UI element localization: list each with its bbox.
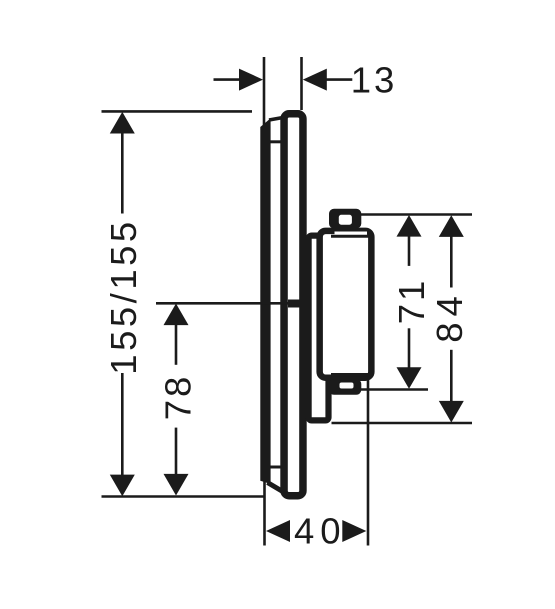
svg-text:155/155: 155/155 bbox=[103, 218, 144, 374]
svg-text:13: 13 bbox=[351, 60, 398, 101]
svg-text:84: 84 bbox=[429, 290, 470, 343]
svg-text:78: 78 bbox=[158, 374, 199, 421]
svg-text:40: 40 bbox=[294, 511, 347, 552]
svg-text:71: 71 bbox=[391, 278, 432, 325]
